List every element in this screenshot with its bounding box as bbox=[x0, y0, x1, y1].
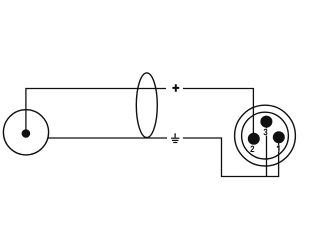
XLR pin 1 bbox=[273, 131, 285, 143]
RCA center pin dot bbox=[22, 129, 31, 138]
pin label 1 bbox=[277, 145, 280, 151]
pin label 1 halo bbox=[277, 145, 281, 152]
RCA connector J1 body bbox=[3, 110, 48, 155]
pin label 2 bbox=[250, 146, 254, 152]
cable jacket ellipse bbox=[136, 73, 157, 138]
XLR pin 2 bbox=[248, 133, 260, 145]
XLR connector J2 inner ring bbox=[242, 112, 289, 159]
wire hot: RCA pin up and top rail left segment bbox=[26, 89, 166, 134]
wire: XLR pin 3 jumper down to shield rail bbox=[266, 123, 268, 177]
ground symbol bbox=[171, 133, 179, 142]
XLR pin 3 bbox=[260, 116, 272, 128]
XLR connector J2 outer shell bbox=[235, 105, 296, 166]
pin label 3 halo bbox=[263, 128, 268, 135]
wire shield: ground symbol to XLR pin 1 bbox=[183, 138, 279, 177]
pin label 3 bbox=[264, 129, 268, 136]
wire hot: top rail right segment down to XLR pin 2 bbox=[183, 89, 253, 137]
wire shield: RCA sleeve to ground symbol bbox=[48, 137, 167, 139]
plus sign (hot marker) bbox=[172, 84, 179, 92]
